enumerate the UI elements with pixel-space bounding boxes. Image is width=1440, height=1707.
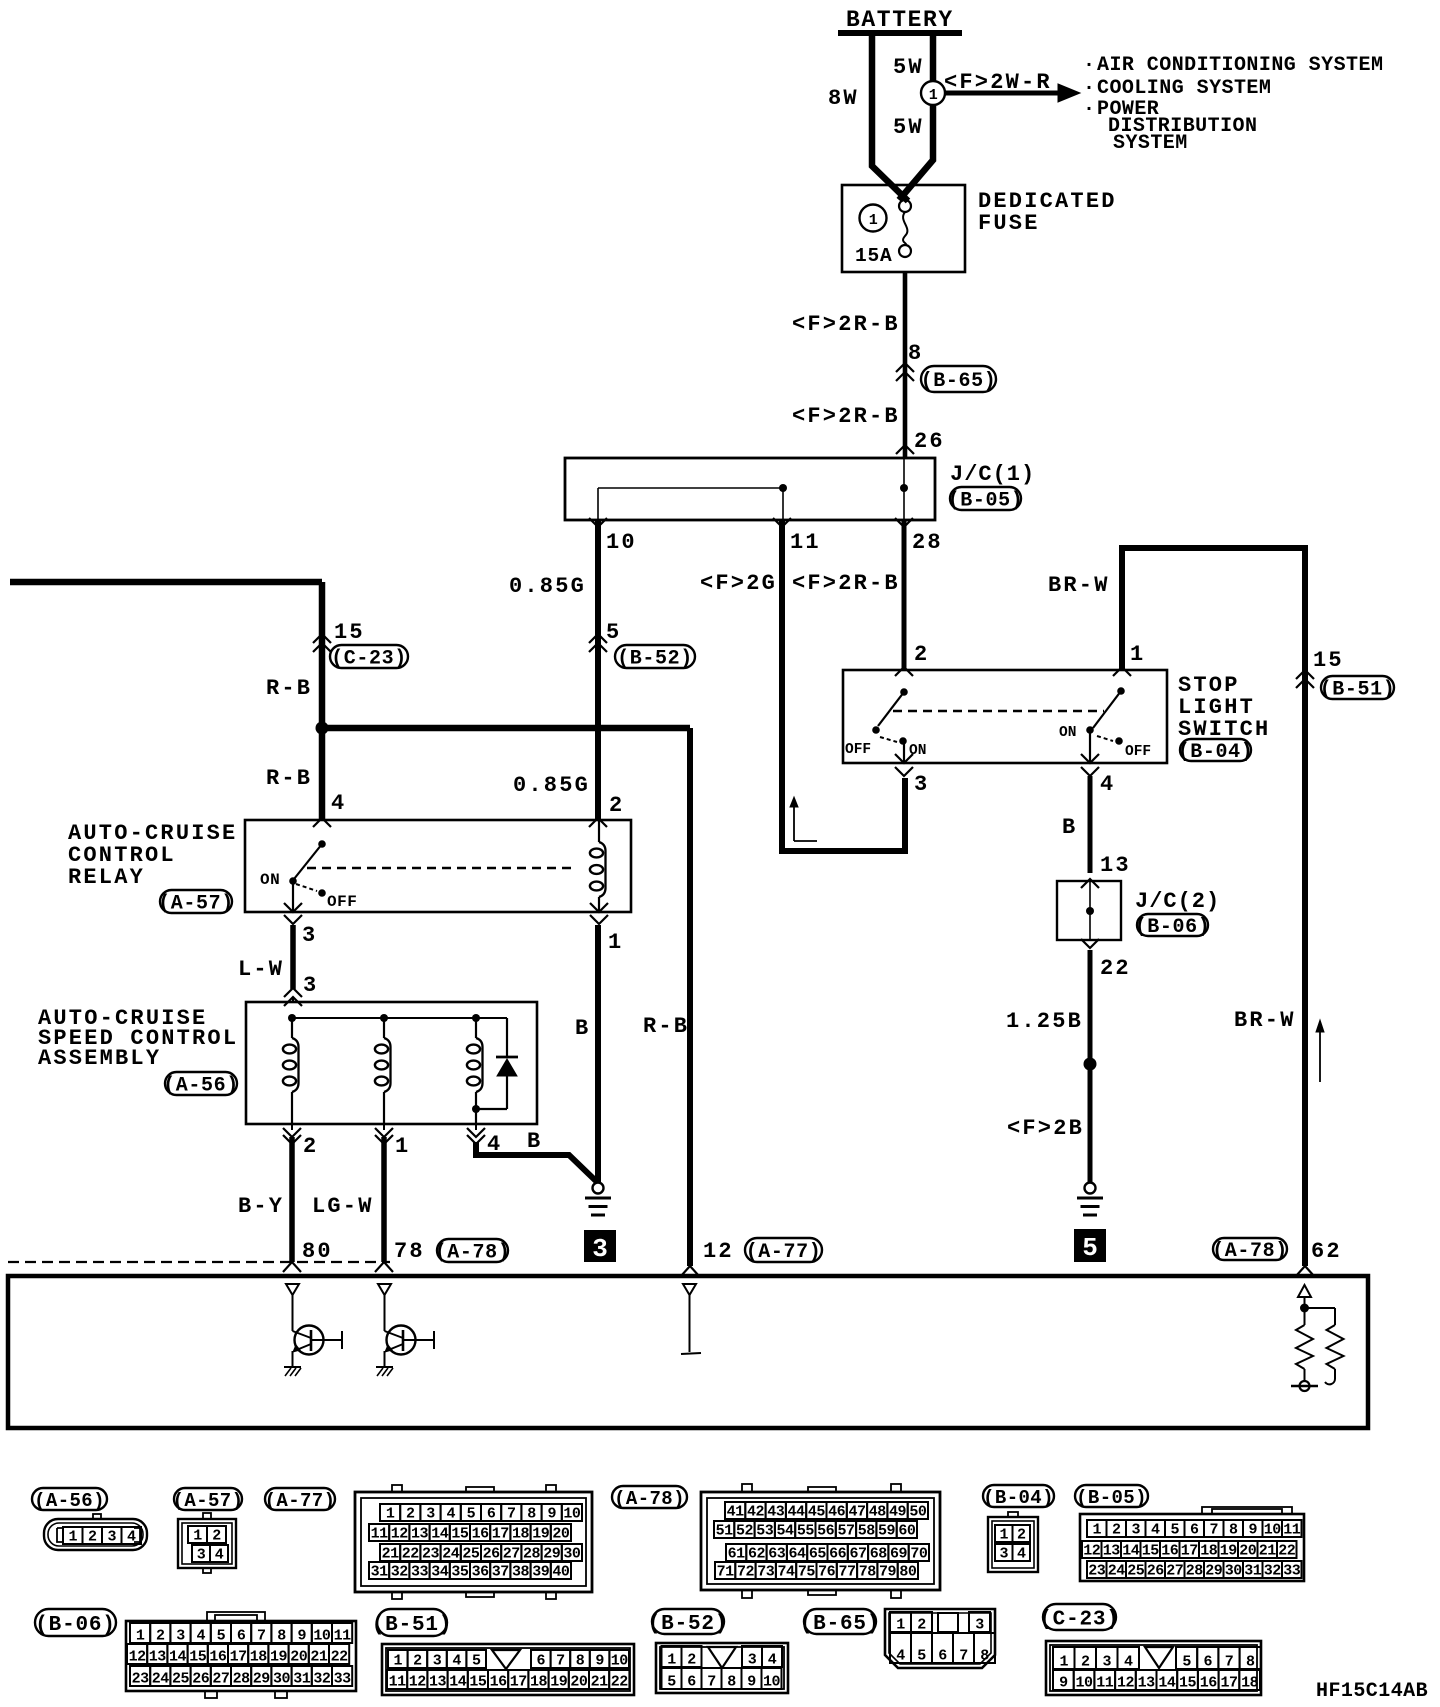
svg-text:17: 17 <box>1220 1675 1237 1692</box>
svg-text:27: 27 <box>503 1546 520 1563</box>
svg-text:65: 65 <box>809 1546 827 1563</box>
svg-text:2: 2 <box>917 1617 926 1634</box>
relay pin 1 exit <box>590 903 608 912</box>
svg-text:0.85G: 0.85G <box>513 773 590 798</box>
svg-text:49: 49 <box>889 1504 907 1521</box>
svg-text:19: 19 <box>270 1649 288 1666</box>
svg-text:FUSE: FUSE <box>978 211 1040 236</box>
connector B-04 label <box>983 1485 1054 1507</box>
svg-text:0.85G: 0.85G <box>509 574 586 599</box>
svg-text:72: 72 <box>737 1564 755 1581</box>
wire R-B to relay pin 4 <box>319 728 326 820</box>
wire L-W relay to assembly <box>290 925 296 989</box>
svg-text:2: 2 <box>88 1529 97 1546</box>
connector B-05 label <box>1075 1485 1148 1507</box>
svg-text:10: 10 <box>313 1628 331 1645</box>
svg-text:2: 2 <box>303 1134 318 1159</box>
dashed boundary A-78 <box>8 1261 390 1263</box>
svg-text:15: 15 <box>469 1674 487 1691</box>
svg-text:39: 39 <box>532 1564 550 1581</box>
svg-text:2: 2 <box>406 1506 415 1523</box>
svg-text:(B-04): (B-04) <box>983 1487 1054 1509</box>
svg-text:1: 1 <box>896 1617 905 1634</box>
svg-text:8: 8 <box>908 341 923 366</box>
svg-text:10: 10 <box>563 1506 581 1523</box>
svg-text:12: 12 <box>391 1526 409 1543</box>
svg-text:35: 35 <box>451 1564 469 1581</box>
svg-text:27: 27 <box>212 1671 229 1688</box>
svg-text:5W: 5W <box>893 115 924 140</box>
svg-text:17: 17 <box>1181 1543 1198 1560</box>
svg-text:21: 21 <box>310 1649 328 1666</box>
svg-text:11: 11 <box>1283 1522 1301 1539</box>
svg-text:<F>2B: <F>2B <box>1007 1116 1084 1141</box>
wire R-B branch to ECU pin 12 <box>322 725 690 732</box>
svg-text:BR-W: BR-W <box>1048 573 1110 598</box>
svg-text:4: 4 <box>768 1652 777 1669</box>
svg-text:33: 33 <box>334 1671 352 1688</box>
svg-text:27: 27 <box>1166 1563 1183 1580</box>
ground ref box 3 <box>584 1230 616 1262</box>
svg-text:8: 8 <box>1229 1522 1238 1539</box>
svg-text:LG-W: LG-W <box>312 1194 374 1219</box>
svg-text:13: 13 <box>1138 1675 1156 1692</box>
svg-text:13: 13 <box>149 1649 167 1666</box>
connector B-65 pinout <box>885 1609 995 1668</box>
svg-text:24: 24 <box>442 1546 460 1563</box>
svg-text:24: 24 <box>1108 1563 1126 1580</box>
svg-text:78: 78 <box>394 1239 425 1264</box>
relay coil <box>598 820 600 842</box>
relay mechanical link dashed <box>307 867 577 869</box>
svg-text:(A-56): (A-56) <box>163 1075 239 1098</box>
wire B switch pin 4 to J/C(2) <box>1088 776 1093 873</box>
svg-text:1: 1 <box>1059 1654 1068 1671</box>
connector B-51 label <box>377 1609 447 1636</box>
connector B-65 label <box>804 1609 876 1634</box>
svg-text:5: 5 <box>1082 1233 1098 1263</box>
svg-text:4: 4 <box>1100 772 1115 797</box>
svg-text:7: 7 <box>507 1506 516 1523</box>
wire 5W from battery with node 1 <box>930 33 937 81</box>
svg-text:<F>2G: <F>2G <box>700 571 777 596</box>
svg-text:10: 10 <box>763 1674 781 1691</box>
svg-text:1: 1 <box>394 1653 403 1670</box>
svg-text:78: 78 <box>859 1564 877 1581</box>
svg-text:<F>2R-B: <F>2R-B <box>792 571 900 596</box>
svg-text:5W: 5W <box>893 55 924 80</box>
connector A-78 pinout <box>701 1492 940 1590</box>
svg-text:(B-52): (B-52) <box>648 1613 728 1636</box>
svg-text:19: 19 <box>1220 1543 1238 1560</box>
svg-text:9: 9 <box>297 1628 306 1645</box>
svg-text:29: 29 <box>253 1671 271 1688</box>
svg-text:ON: ON <box>260 871 280 889</box>
svg-text:62: 62 <box>748 1546 766 1563</box>
svg-text:33: 33 <box>411 1564 429 1581</box>
relay pin 2 entry <box>589 818 607 827</box>
svg-text:14: 14 <box>169 1649 187 1666</box>
auto-cruise control relay A-57 box <box>245 820 631 912</box>
svg-text:22: 22 <box>331 1649 349 1666</box>
ground G5 <box>1085 1183 1096 1194</box>
connector A-56 pinout <box>44 1519 147 1550</box>
svg-text:36: 36 <box>472 1564 490 1581</box>
svg-text:15A: 15A <box>855 245 893 267</box>
svg-text:45: 45 <box>808 1504 826 1521</box>
svg-text:8W: 8W <box>828 86 859 111</box>
svg-text:1: 1 <box>136 1628 145 1645</box>
svg-text:24: 24 <box>152 1671 170 1688</box>
svg-text:(B-06): (B-06) <box>35 1614 115 1637</box>
svg-text:31: 31 <box>1244 1563 1262 1580</box>
svg-text:31: 31 <box>371 1564 389 1581</box>
svg-text:4: 4 <box>896 1648 905 1665</box>
svg-text:4: 4 <box>446 1506 455 1523</box>
assembly pin 1 exit <box>383 1124 385 1130</box>
connector A-56 label <box>32 1488 107 1510</box>
relay pin 4 entry <box>313 818 331 827</box>
junction connector J/C(1) box <box>565 458 935 520</box>
dedicated fuse box <box>842 185 965 272</box>
J/C(1) internal bus <box>903 458 905 520</box>
svg-text:28: 28 <box>1186 1563 1204 1580</box>
svg-text:43: 43 <box>767 1504 785 1521</box>
svg-text:BR-W: BR-W <box>1234 1008 1296 1033</box>
svg-text:38: 38 <box>512 1564 530 1581</box>
transistor Q1 <box>292 1295 294 1331</box>
ECU pin 12 stub <box>689 1295 691 1352</box>
svg-text:6: 6 <box>1204 1654 1213 1671</box>
svg-text:(A-77): (A-77) <box>265 1490 336 1512</box>
switch mechanical link dashed <box>893 710 1104 712</box>
svg-text:(B-65): (B-65) <box>921 370 997 393</box>
svg-text:80: 80 <box>899 1564 917 1581</box>
svg-text:9: 9 <box>1248 1522 1257 1539</box>
svg-text:COOLING SYSTEM: COOLING SYSTEM <box>1097 77 1271 100</box>
svg-text:20: 20 <box>570 1674 588 1691</box>
svg-text:3: 3 <box>592 1234 608 1264</box>
assembly pin 4 exit <box>475 1124 477 1130</box>
wire BR-W from switch pin 1 <box>1122 548 1305 1266</box>
ground ref box 5 <box>1074 1229 1106 1262</box>
svg-text:28: 28 <box>523 1546 541 1563</box>
svg-text:40: 40 <box>552 1564 570 1581</box>
arrow <F>2W-R to other systems <box>945 91 1058 96</box>
svg-text:59: 59 <box>878 1523 896 1540</box>
svg-text:<F>2R-B: <F>2R-B <box>792 312 900 337</box>
svg-text:15: 15 <box>451 1526 469 1543</box>
svg-text:6: 6 <box>487 1506 496 1523</box>
svg-text:2: 2 <box>914 642 929 667</box>
relay pin 3 exit <box>284 903 302 912</box>
svg-text:(B-05): (B-05) <box>948 490 1024 513</box>
junction connector J/C(2) box <box>1057 881 1121 940</box>
svg-text:3: 3 <box>914 772 929 797</box>
connector A-57 label <box>174 1488 242 1510</box>
svg-text:<F>2R-B: <F>2R-B <box>792 404 900 429</box>
svg-text:(A-57): (A-57) <box>173 1490 244 1512</box>
connector A-77 pinout <box>355 1492 592 1592</box>
svg-text:11: 11 <box>389 1674 407 1691</box>
svg-text:57: 57 <box>837 1523 854 1540</box>
svg-text:5: 5 <box>606 620 621 645</box>
svg-text:74: 74 <box>778 1564 796 1581</box>
svg-text:23: 23 <box>132 1671 150 1688</box>
svg-text:B-Y: B-Y <box>238 1194 284 1219</box>
svg-text:(C-23): (C-23) <box>1039 1609 1119 1632</box>
svg-text:5: 5 <box>217 1628 226 1645</box>
wire 1.25B to ground <box>1088 950 1093 1182</box>
svg-text:·: · <box>1083 98 1095 121</box>
svg-text:11: 11 <box>1096 1675 1114 1692</box>
svg-text:AIR CONDITIONING SYSTEM: AIR CONDITIONING SYSTEM <box>1097 54 1383 77</box>
svg-text:4: 4 <box>1151 1522 1160 1539</box>
svg-text:6: 6 <box>1190 1522 1199 1539</box>
svg-text:58: 58 <box>858 1523 876 1540</box>
svg-text:20: 20 <box>552 1526 570 1543</box>
connector B-52 inline chevrons <box>589 634 607 643</box>
svg-text:3: 3 <box>1131 1522 1140 1539</box>
svg-text:RELAY: RELAY <box>68 865 145 890</box>
svg-text:3: 3 <box>433 1653 442 1670</box>
svg-text:15: 15 <box>334 620 365 645</box>
svg-text:3: 3 <box>176 1628 185 1645</box>
svg-text:12: 12 <box>1083 1543 1101 1560</box>
svg-text:21: 21 <box>1259 1543 1277 1560</box>
svg-text:16: 16 <box>472 1526 490 1543</box>
svg-text:OFF: OFF <box>1125 744 1151 760</box>
connector A-77 label <box>265 1488 335 1510</box>
svg-text:5: 5 <box>667 1674 676 1691</box>
wire B assembly pin 4 to ground <box>476 1142 597 1182</box>
svg-text:1: 1 <box>395 1134 410 1159</box>
svg-text:16: 16 <box>490 1674 508 1691</box>
svg-text:3: 3 <box>303 973 318 998</box>
reference arrow up <box>793 800 795 841</box>
svg-text:2: 2 <box>1081 1654 1090 1671</box>
junction node R-B <box>316 722 329 735</box>
ECU box <box>8 1276 1368 1428</box>
svg-text:30: 30 <box>273 1671 291 1688</box>
svg-text:12: 12 <box>129 1649 147 1666</box>
svg-text:29: 29 <box>543 1546 561 1563</box>
svg-text:10: 10 <box>1076 1675 1094 1692</box>
svg-text:6: 6 <box>537 1653 546 1670</box>
ECU pin 62 resistor network <box>1304 1297 1306 1304</box>
wire 8W from battery <box>872 33 908 201</box>
svg-text:1: 1 <box>1130 642 1145 667</box>
svg-text:(A-78): (A-78) <box>614 1488 685 1510</box>
svg-text:ON: ON <box>1059 725 1076 741</box>
svg-text:13: 13 <box>411 1526 429 1543</box>
svg-text:28: 28 <box>912 530 943 555</box>
svg-text:B: B <box>1062 815 1077 840</box>
svg-text:1: 1 <box>1092 1522 1101 1539</box>
svg-text:18: 18 <box>530 1674 548 1691</box>
svg-text:26: 26 <box>914 429 945 454</box>
svg-text:1: 1 <box>386 1506 395 1523</box>
svg-text:18: 18 <box>1200 1543 1218 1560</box>
svg-text:10: 10 <box>606 530 637 555</box>
svg-text:70: 70 <box>910 1546 928 1563</box>
svg-text:32: 32 <box>391 1564 409 1581</box>
svg-text:22: 22 <box>1100 956 1131 981</box>
svg-text:2: 2 <box>413 1653 422 1670</box>
svg-text:12: 12 <box>703 1239 734 1264</box>
svg-text:13: 13 <box>1103 1543 1121 1560</box>
svg-text:8: 8 <box>1246 1654 1255 1671</box>
svg-text:25: 25 <box>1127 1563 1145 1580</box>
svg-text:4: 4 <box>1124 1654 1133 1671</box>
resistor R1 <box>1296 1325 1313 1369</box>
svg-text:9: 9 <box>1059 1675 1068 1692</box>
svg-text:77: 77 <box>838 1564 855 1581</box>
svg-text:55: 55 <box>797 1523 815 1540</box>
splice node <box>1084 1058 1097 1071</box>
svg-text:·: · <box>1083 77 1095 100</box>
svg-text:16: 16 <box>209 1649 227 1666</box>
svg-text:19: 19 <box>532 1526 550 1543</box>
svg-text:8: 8 <box>277 1628 286 1645</box>
svg-text:ASSEMBLY: ASSEMBLY <box>38 1046 161 1071</box>
pin 28 <box>895 518 913 527</box>
svg-text:56: 56 <box>817 1523 835 1540</box>
svg-text:26: 26 <box>1147 1563 1165 1580</box>
svg-text:13: 13 <box>429 1674 447 1691</box>
svg-text:5: 5 <box>467 1506 476 1523</box>
svg-text:6: 6 <box>687 1674 696 1691</box>
svg-text:<F>2W-R: <F>2W-R <box>944 70 1052 95</box>
direction arrow up BR-W <box>1319 1026 1321 1082</box>
svg-text:20: 20 <box>290 1649 308 1666</box>
connector B-52 pinout <box>656 1643 788 1693</box>
svg-text:(B-04): (B-04) <box>1178 741 1254 764</box>
pin 11 <box>773 518 791 527</box>
svg-text:·: · <box>1083 54 1095 77</box>
assembly pin 2 exit <box>291 1124 293 1130</box>
svg-text:1: 1 <box>999 1527 1008 1544</box>
svg-text:66: 66 <box>829 1546 847 1563</box>
svg-text:34: 34 <box>431 1564 449 1581</box>
svg-text:14: 14 <box>1158 1675 1176 1692</box>
svg-text:(A-78): (A-78) <box>435 1242 511 1265</box>
svg-text:26: 26 <box>192 1671 210 1688</box>
svg-text:2: 2 <box>687 1652 696 1669</box>
svg-text:11: 11 <box>334 1628 352 1645</box>
svg-text:21: 21 <box>591 1674 609 1691</box>
svg-text:79: 79 <box>879 1564 897 1581</box>
svg-text:42: 42 <box>747 1504 765 1521</box>
svg-text:44: 44 <box>788 1504 806 1521</box>
svg-text:4: 4 <box>196 1628 205 1645</box>
svg-text:5: 5 <box>1170 1522 1179 1539</box>
assembly internal bus <box>292 1017 507 1019</box>
connector B-06 pinout <box>126 1621 356 1691</box>
auto-cruise speed control assembly A-56 box <box>246 1002 537 1124</box>
ECU pin 78 terminal <box>378 1284 391 1295</box>
connector B-51 pinout <box>382 1644 634 1695</box>
svg-text:R-B: R-B <box>643 1014 689 1039</box>
connector B-05 pinout <box>1080 1514 1304 1581</box>
ECU pin 62 terminal <box>1298 1285 1311 1297</box>
wire <F>2R-B from fuse <box>903 272 908 458</box>
resistor R2 <box>1305 1307 1336 1309</box>
svg-text:46: 46 <box>828 1504 846 1521</box>
ground G3 <box>593 1183 604 1194</box>
svg-text:9: 9 <box>547 1506 556 1523</box>
svg-text:OFF: OFF <box>327 893 357 911</box>
svg-text:2: 2 <box>1017 1527 1026 1544</box>
svg-text:3: 3 <box>1102 1654 1111 1671</box>
svg-text:26: 26 <box>483 1546 501 1563</box>
svg-text:BATTERY: BATTERY <box>846 7 954 33</box>
svg-text:73: 73 <box>757 1564 775 1581</box>
svg-text:7: 7 <box>1225 1654 1234 1671</box>
svg-text:(B-51): (B-51) <box>1320 679 1396 702</box>
svg-text:63: 63 <box>768 1546 786 1563</box>
svg-text:7: 7 <box>556 1653 565 1670</box>
svg-text:8: 8 <box>727 1674 736 1691</box>
svg-text:22: 22 <box>402 1546 420 1563</box>
svg-text:4: 4 <box>331 791 346 816</box>
svg-text:OFF: OFF <box>845 742 871 758</box>
svg-text:(B-06): (B-06) <box>1135 916 1211 939</box>
svg-text:30: 30 <box>563 1546 581 1563</box>
svg-text:31: 31 <box>293 1671 311 1688</box>
svg-text:8: 8 <box>527 1506 536 1523</box>
svg-text:68: 68 <box>870 1546 888 1563</box>
svg-text:30: 30 <box>1225 1563 1243 1580</box>
svg-text:76: 76 <box>818 1564 836 1581</box>
svg-text:47: 47 <box>848 1504 865 1521</box>
svg-text:4: 4 <box>452 1653 461 1670</box>
node circle 1 <box>921 81 945 105</box>
svg-text:R-B: R-B <box>266 676 312 701</box>
svg-text:21: 21 <box>382 1546 400 1563</box>
svg-text:60: 60 <box>898 1523 916 1540</box>
wire 0.85G from J/C(1) pin 10 <box>595 520 601 820</box>
svg-text:37: 37 <box>492 1564 509 1581</box>
svg-text:1: 1 <box>193 1528 202 1545</box>
svg-text:(B-05): (B-05) <box>1076 1487 1147 1509</box>
wire LG-W assembly pin 1 to ECU pin 78 <box>381 1137 387 1262</box>
svg-text:9: 9 <box>595 1653 604 1670</box>
svg-text:32: 32 <box>1264 1563 1282 1580</box>
svg-text:48: 48 <box>869 1504 887 1521</box>
svg-text:3: 3 <box>107 1529 116 1546</box>
svg-text:11: 11 <box>371 1526 389 1543</box>
svg-text:6: 6 <box>237 1628 246 1645</box>
svg-text:2: 2 <box>1112 1522 1121 1539</box>
switch pin 4 exit <box>1081 754 1099 763</box>
wire B-Y assembly pin 2 to ECU pin 80 <box>289 1137 295 1262</box>
svg-text:7: 7 <box>1209 1522 1218 1539</box>
switch pin 1 entry <box>1113 667 1131 676</box>
svg-text:80: 80 <box>302 1239 333 1264</box>
svg-text:3: 3 <box>999 1546 1008 1563</box>
svg-text:R-B: R-B <box>266 766 312 791</box>
svg-text:50: 50 <box>909 1504 927 1521</box>
svg-text:2: 2 <box>156 1628 165 1645</box>
svg-text:(A-57): (A-57) <box>158 893 234 916</box>
connector B-04 pinout <box>988 1517 1038 1572</box>
assembly diode <box>506 1018 508 1058</box>
fuse element <box>899 200 911 212</box>
assembly coil 3 <box>475 1018 477 1038</box>
svg-text:52: 52 <box>736 1523 754 1540</box>
svg-text:6: 6 <box>938 1648 947 1665</box>
